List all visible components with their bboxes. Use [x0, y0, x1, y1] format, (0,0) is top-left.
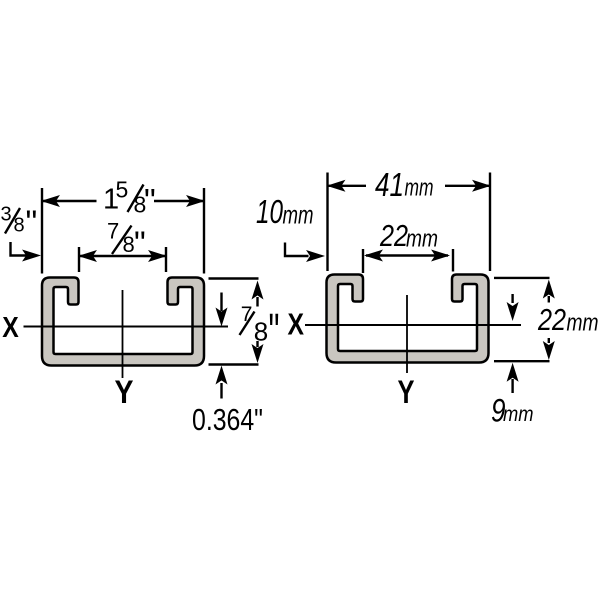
svg-text:3: 3 — [1, 204, 12, 226]
svg-text:": " — [134, 224, 146, 261]
svg-text:Y: Y — [398, 374, 415, 410]
svg-text:8: 8 — [14, 215, 25, 237]
svg-text:8: 8 — [254, 317, 268, 347]
svg-text:": " — [26, 204, 38, 241]
svg-text:X: X — [2, 312, 19, 344]
svg-text:Y: Y — [115, 374, 134, 410]
svg-text:mm: mm — [503, 403, 534, 426]
svg-text:10: 10 — [256, 193, 283, 230]
svg-text:mm: mm — [405, 175, 434, 202]
svg-text:8: 8 — [123, 232, 135, 257]
svg-text:22: 22 — [537, 302, 566, 337]
svg-text:41: 41 — [375, 166, 404, 203]
svg-text:7: 7 — [107, 219, 119, 244]
svg-text:X: X — [288, 307, 305, 342]
svg-text:0.364": 0.364" — [192, 402, 263, 437]
svg-text:mm: mm — [283, 200, 314, 230]
svg-text:mm: mm — [567, 310, 599, 337]
svg-text:mm: mm — [406, 226, 438, 253]
svg-text:": " — [269, 303, 280, 361]
svg-text:22: 22 — [379, 218, 408, 253]
svg-text:": " — [144, 182, 156, 219]
svg-text:5: 5 — [116, 177, 129, 203]
